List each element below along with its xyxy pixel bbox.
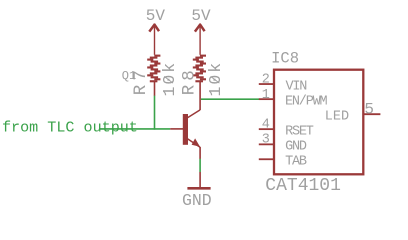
- svg-text:IC8: IC8: [271, 49, 299, 67]
- ground symbol bar: [187, 187, 210, 190]
- resistor R8 zigzag: [193, 55, 206, 83]
- value 10k of R8 (rotated): [206, 61, 225, 97]
- svg-text:CAT4101: CAT4101: [265, 176, 341, 196]
- transistor Q1 emitter diagonal: [188, 139, 201, 148]
- pin 5 LED stub: [363, 113, 380, 115]
- svg-text:VIN: VIN: [286, 79, 308, 94]
- transistor Q1 base pin: [170, 128, 183, 130]
- pin 3 GND stub: [259, 143, 274, 145]
- pin 4 RSET stub: [259, 128, 274, 130]
- resistor R8 bottom pin / Q1 collector pin: [199, 82, 201, 110]
- svg-text:from TLC output: from TLC output: [2, 118, 138, 136]
- wire base horizontal green: [99, 128, 170, 130]
- pin 2 VIN stub: [259, 83, 274, 85]
- svg-text:1: 1: [262, 88, 270, 103]
- svg-text:5V: 5V: [191, 7, 211, 25]
- svg-text:EN/PWM: EN/PWM: [285, 95, 328, 110]
- svg-text:GND: GND: [182, 191, 212, 210]
- transistor Q1 collector diagonal: [188, 110, 201, 118]
- resistor R7 bottom pin: [154, 82, 156, 96]
- wire R8 to EN/PWM green: [201, 98, 260, 100]
- transistor Q1 base bar: [183, 114, 188, 145]
- supply 5V arrow P1: [149, 23, 159, 54]
- wire R7 vertical green: [154, 96, 156, 130]
- svg-text:4: 4: [262, 118, 270, 133]
- svg-text:10k: 10k: [160, 61, 179, 97]
- value 10k of R7 (rotated): [160, 61, 179, 97]
- svg-text:R8: R8: [179, 66, 199, 95]
- transistor Q1 emitter arrowhead: [192, 138, 200, 146]
- supply 5V arrow P2: [195, 23, 205, 54]
- svg-text:LED: LED: [325, 110, 349, 125]
- ground symbol pin: [199, 172, 201, 187]
- svg-text:5: 5: [364, 100, 374, 118]
- svg-text:3: 3: [262, 133, 270, 148]
- pin 1 EN/PWM stub: [259, 98, 274, 100]
- svg-text:10k: 10k: [206, 61, 225, 97]
- svg-text:R7: R7: [131, 66, 151, 95]
- svg-text:5V: 5V: [146, 7, 166, 25]
- transistor Q1 emitter pin: [199, 147, 201, 159]
- svg-text:TAB: TAB: [285, 155, 307, 170]
- TAB pin stub: [259, 158, 274, 160]
- svg-text:2: 2: [262, 73, 270, 88]
- op-amp/driver IC8 box: [274, 70, 363, 175]
- wire emitter to GND green: [199, 159, 201, 173]
- svg-text:GND: GND: [285, 140, 307, 155]
- svg-text:RSET: RSET: [285, 125, 314, 140]
- resistor R7 zigzag: [147, 55, 160, 83]
